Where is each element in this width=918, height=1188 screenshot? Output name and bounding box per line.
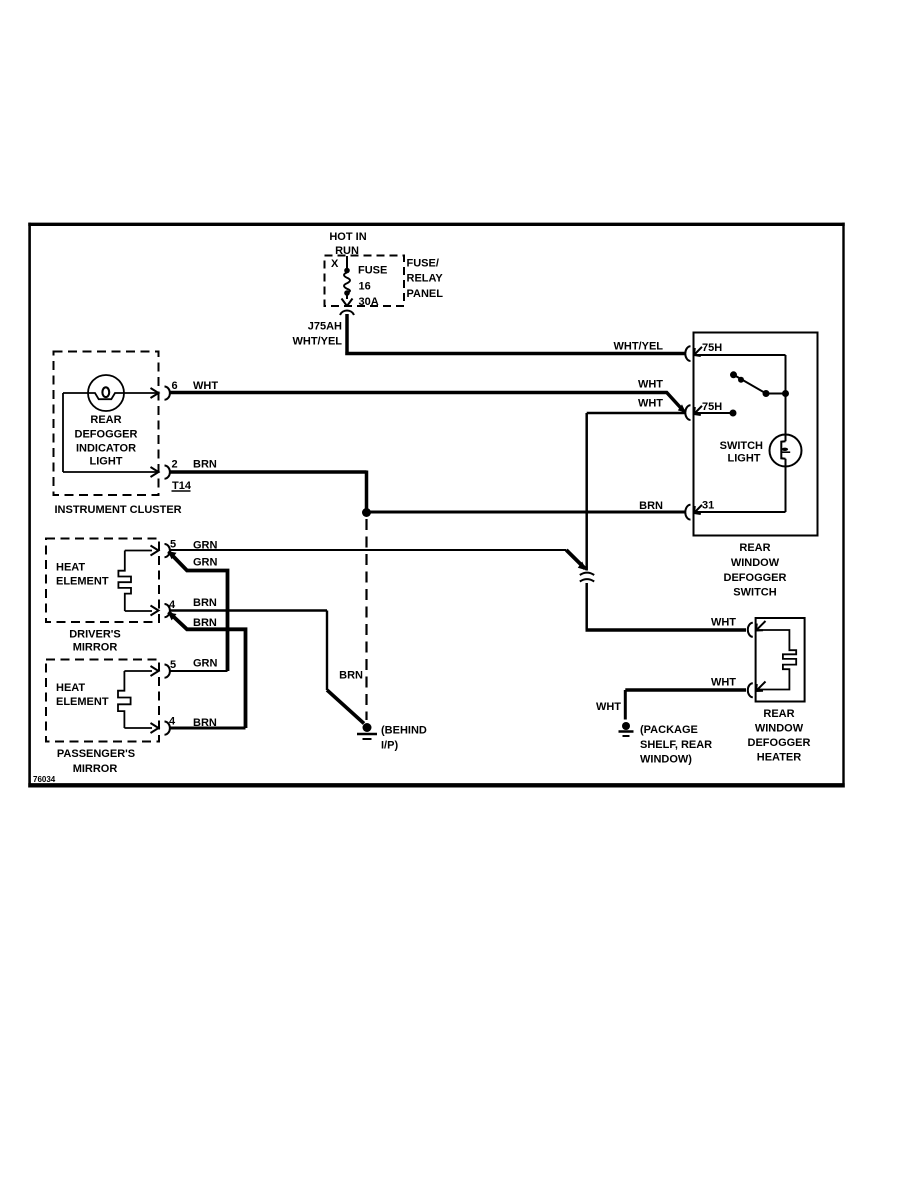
svg-text:INSTRUMENT CLUSTER: INSTRUMENT CLUSTER — [55, 504, 182, 516]
svg-text:T14: T14 — [172, 480, 192, 492]
svg-text:BRN: BRN — [339, 670, 363, 682]
svg-text:WHT: WHT — [638, 379, 663, 391]
svg-text:WHT: WHT — [638, 398, 663, 410]
svg-text:BRN: BRN — [639, 500, 663, 512]
svg-text:MIRROR: MIRROR — [73, 642, 118, 654]
svg-text:I/P): I/P) — [381, 740, 398, 752]
svg-text:(BEHIND: (BEHIND — [381, 725, 427, 737]
svg-text:75H: 75H — [702, 342, 722, 354]
svg-text:31: 31 — [702, 500, 714, 512]
svg-text:5: 5 — [170, 659, 176, 671]
svg-text:GRN: GRN — [193, 557, 218, 569]
svg-text:5: 5 — [170, 539, 176, 551]
svg-text:SWITCH: SWITCH — [720, 440, 763, 452]
svg-text:6: 6 — [172, 380, 178, 392]
svg-text:DEFOGGER: DEFOGGER — [724, 572, 787, 584]
svg-text:FUSE: FUSE — [358, 265, 387, 277]
svg-text:PASSENGER'S: PASSENGER'S — [57, 748, 135, 760]
svg-text:HEATER: HEATER — [757, 752, 801, 764]
svg-text:PANEL: PANEL — [407, 288, 444, 300]
svg-text:WHT/YEL: WHT/YEL — [614, 341, 664, 353]
svg-text:WHT: WHT — [193, 380, 218, 392]
svg-text:ELEMENT: ELEMENT — [56, 696, 109, 708]
svg-text:INDICATOR: INDICATOR — [76, 443, 136, 455]
svg-text:SHELF, REAR: SHELF, REAR — [640, 739, 712, 751]
svg-text:GRN: GRN — [193, 658, 218, 670]
svg-text:LIGHT: LIGHT — [728, 453, 761, 465]
svg-text:4: 4 — [169, 599, 176, 611]
svg-text:16: 16 — [359, 281, 371, 293]
svg-text:SWITCH: SWITCH — [733, 587, 776, 599]
svg-text:J75AH: J75AH — [308, 321, 342, 333]
svg-text:HOT IN: HOT IN — [329, 231, 366, 243]
svg-text:ELEMENT: ELEMENT — [56, 576, 109, 588]
svg-text:2: 2 — [172, 459, 178, 471]
svg-text:DRIVER'S: DRIVER'S — [69, 629, 121, 641]
svg-text:WINDOW: WINDOW — [731, 557, 780, 569]
svg-text:75H: 75H — [702, 401, 722, 413]
svg-text:WHT: WHT — [711, 617, 736, 629]
svg-text:BRN: BRN — [193, 617, 217, 629]
svg-text:DEFOGGER: DEFOGGER — [75, 429, 138, 441]
svg-text:WINDOW): WINDOW) — [640, 754, 692, 766]
svg-text:RELAY: RELAY — [407, 273, 444, 285]
svg-text:BRN: BRN — [193, 459, 217, 471]
svg-text:(PACKAGE: (PACKAGE — [640, 724, 698, 736]
svg-text:30A: 30A — [359, 296, 379, 308]
svg-text:REAR: REAR — [763, 708, 794, 720]
svg-text:REAR: REAR — [90, 414, 121, 426]
svg-text:HEAT: HEAT — [56, 682, 85, 694]
svg-text:4: 4 — [169, 716, 176, 728]
svg-text:BRN: BRN — [193, 597, 217, 609]
svg-text:WHT: WHT — [711, 677, 736, 689]
svg-text:WHT: WHT — [596, 701, 621, 713]
svg-text:REAR: REAR — [739, 542, 770, 554]
svg-text:WINDOW: WINDOW — [755, 723, 804, 735]
svg-text:FUSE/: FUSE/ — [407, 258, 439, 270]
svg-text:WHT/YEL: WHT/YEL — [293, 336, 343, 348]
svg-text:DEFOGGER: DEFOGGER — [748, 737, 811, 749]
svg-text:MIRROR: MIRROR — [73, 763, 118, 775]
svg-text:76034: 76034 — [33, 775, 56, 784]
svg-text:HEAT: HEAT — [56, 562, 85, 574]
svg-text:LIGHT: LIGHT — [90, 456, 123, 468]
svg-text:X: X — [331, 258, 339, 270]
